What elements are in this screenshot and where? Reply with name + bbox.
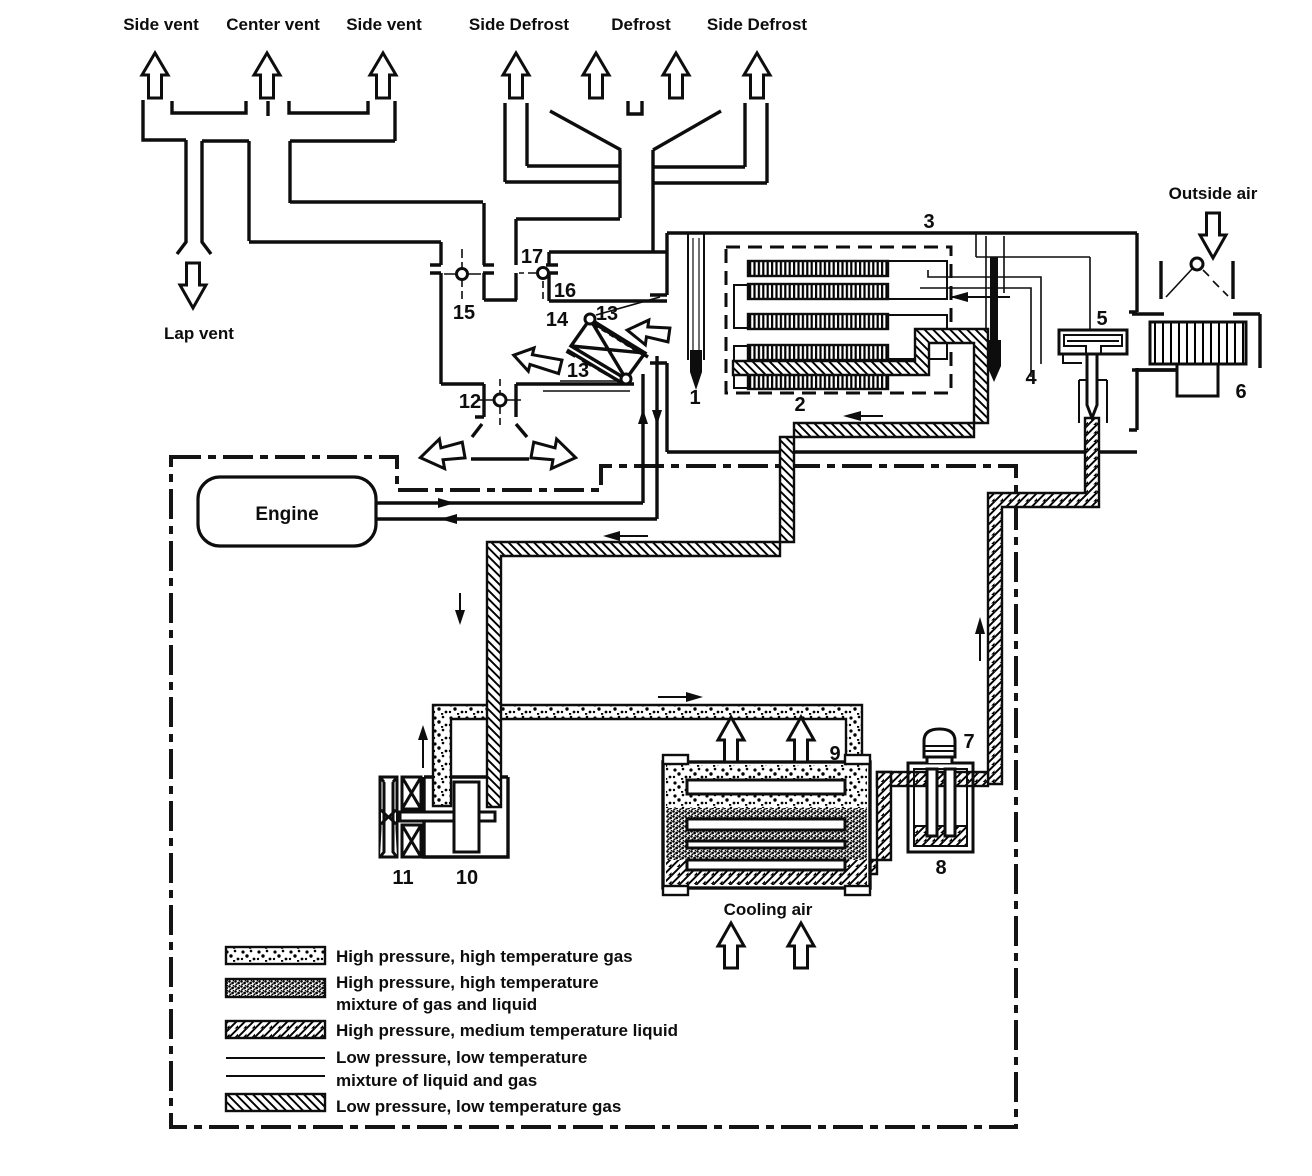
svg-text:Side vent: Side vent <box>123 15 199 34</box>
svg-text:1: 1 <box>689 387 700 409</box>
svg-text:Side Defrost: Side Defrost <box>707 15 807 34</box>
svg-text:8: 8 <box>935 857 946 879</box>
svg-text:Defrost: Defrost <box>611 15 671 34</box>
svg-text:Side Defrost: Side Defrost <box>469 15 569 34</box>
svg-text:Engine: Engine <box>255 504 318 525</box>
svg-text:mixture of gas and liquid: mixture of gas and liquid <box>336 995 537 1014</box>
svg-text:13: 13 <box>596 303 618 325</box>
svg-text:Side vent: Side vent <box>346 15 422 34</box>
svg-text:Cooling air: Cooling air <box>724 900 813 919</box>
svg-text:5: 5 <box>1096 308 1107 330</box>
svg-text:16: 16 <box>554 280 576 302</box>
svg-text:17: 17 <box>521 246 543 268</box>
svg-text:High pressure, high temperatur: High pressure, high temperature <box>336 973 599 992</box>
svg-text:9: 9 <box>829 743 840 765</box>
svg-text:Center vent: Center vent <box>226 15 320 34</box>
svg-text:2: 2 <box>794 394 805 416</box>
svg-text:4: 4 <box>1025 367 1037 389</box>
svg-text:15: 15 <box>453 302 475 324</box>
svg-text:Low pressure, low temperature: Low pressure, low temperature <box>336 1048 587 1067</box>
svg-text:12: 12 <box>459 391 481 413</box>
svg-text:3: 3 <box>923 211 934 233</box>
svg-text:14: 14 <box>546 309 569 331</box>
svg-text:10: 10 <box>456 867 478 889</box>
svg-text:7: 7 <box>963 731 974 753</box>
svg-text:mixture of liquid and gas: mixture of liquid and gas <box>336 1071 537 1090</box>
svg-text:High pressure, medium temperat: High pressure, medium temperature liquid <box>336 1021 678 1040</box>
svg-text:13: 13 <box>567 360 589 382</box>
svg-text:11: 11 <box>392 867 413 889</box>
svg-text:6: 6 <box>1235 381 1246 403</box>
svg-text:High pressure, high temperatur: High pressure, high temperature gas <box>336 947 633 966</box>
svg-text:Lap vent: Lap vent <box>164 324 234 343</box>
svg-text:Outside air: Outside air <box>1169 184 1258 203</box>
svg-text:Low pressure, low temperature: Low pressure, low temperature gas <box>336 1097 621 1116</box>
